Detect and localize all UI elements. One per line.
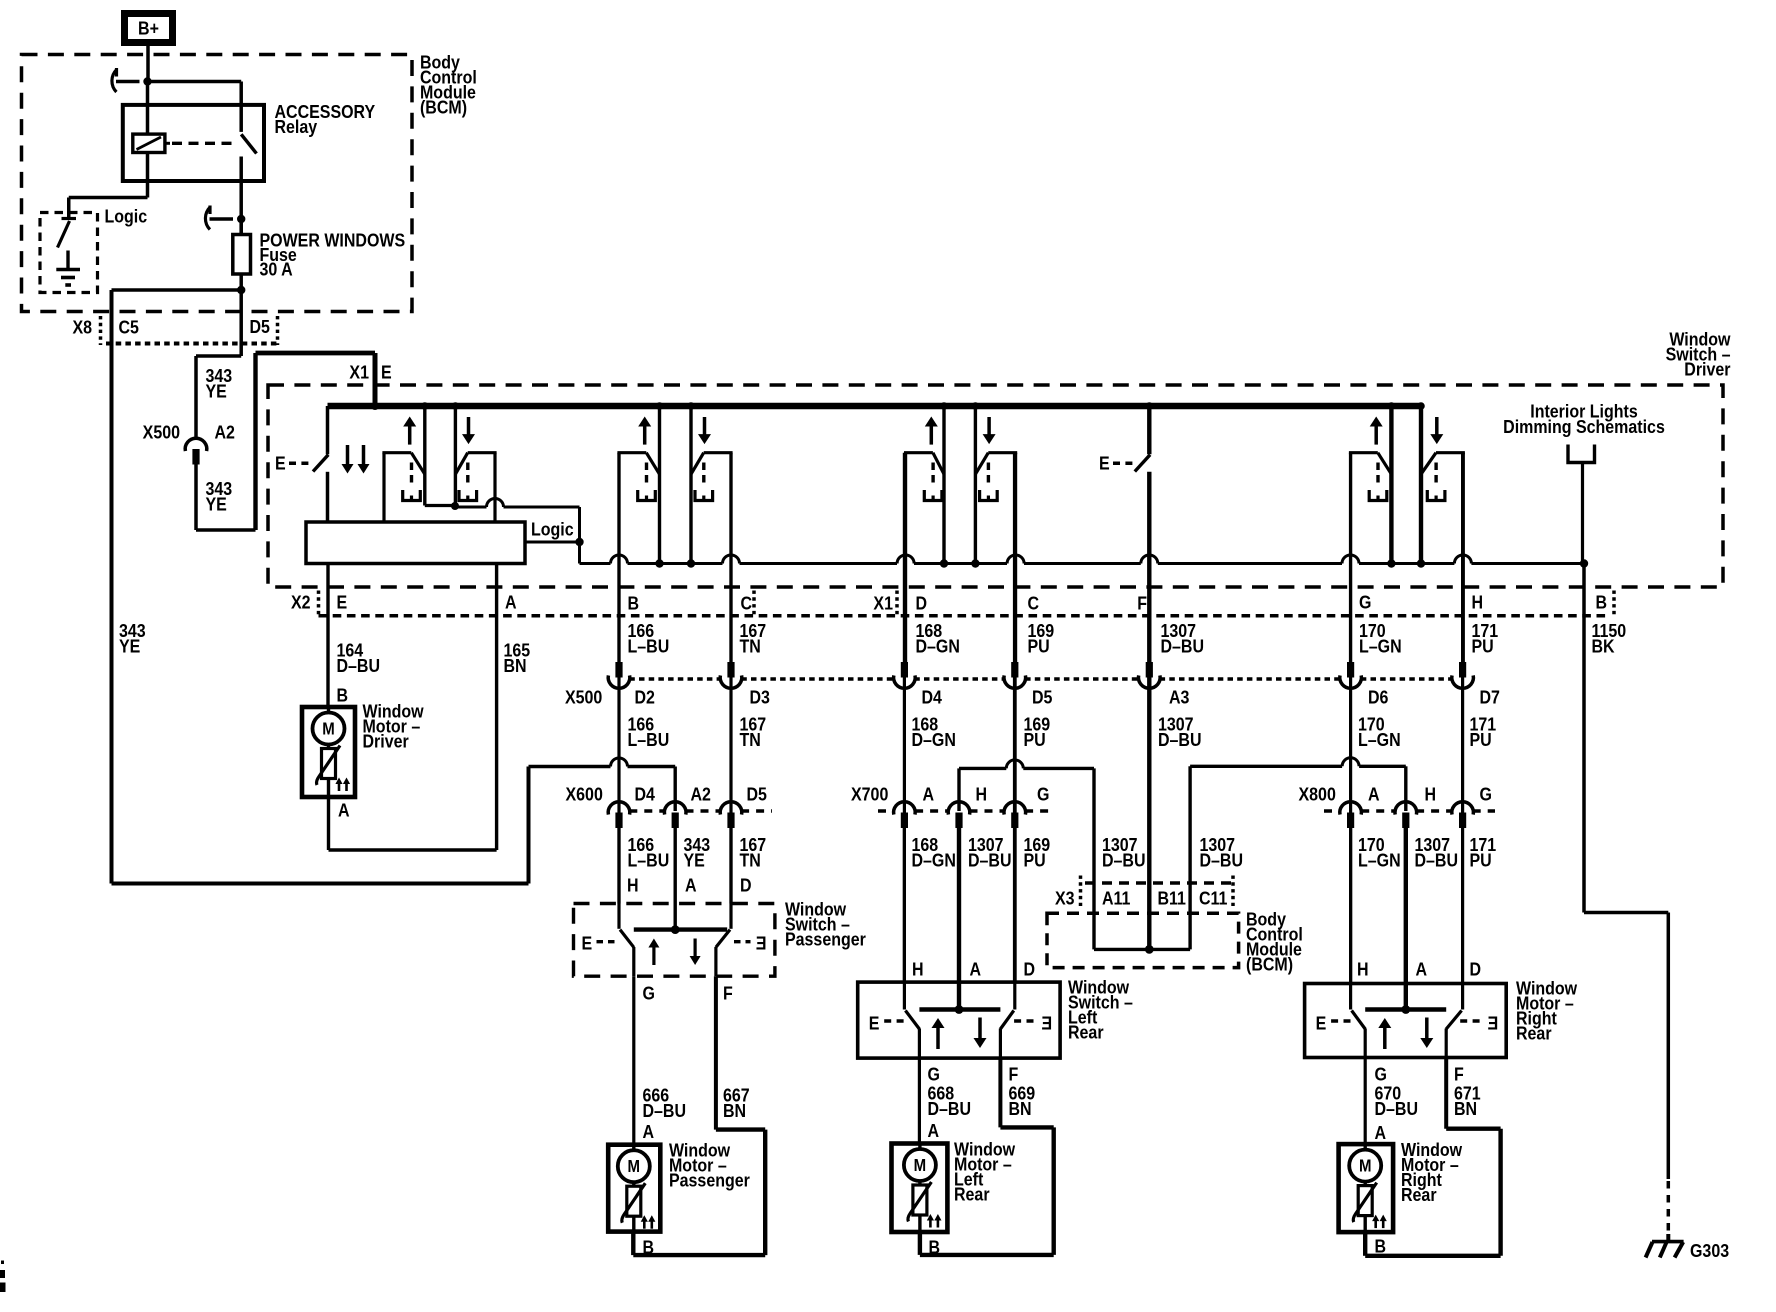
svg-text:BN: BN	[1454, 1098, 1477, 1119]
svg-text:D5: D5	[1032, 686, 1053, 707]
Body Control Module bottom dashed box	[1047, 913, 1239, 967]
svg-text:E: E	[869, 1012, 880, 1033]
svg-text:A11: A11	[1102, 887, 1131, 908]
wire 166 L-BU	[617, 453, 620, 904]
svg-text:M: M	[1359, 1157, 1371, 1176]
svg-text:Rear: Rear	[1401, 1184, 1437, 1205]
ground G303	[1666, 1234, 1670, 1242]
svg-text:D–BU: D–BU	[1375, 1098, 1419, 1119]
switch pair passenger window	[617, 453, 620, 663]
svg-text:PU: PU	[1472, 635, 1494, 656]
node fuse top junction	[237, 215, 245, 223]
svg-text:D–BU: D–BU	[1158, 729, 1202, 750]
wire X800 outputs to right rear switch	[1349, 827, 1352, 984]
svg-text:E: E	[756, 932, 767, 953]
node fuse output junction	[237, 286, 245, 294]
svg-text:G: G	[643, 982, 655, 1003]
svg-text:E: E	[1041, 1012, 1052, 1033]
relay K - ACCESSORY Relay box	[123, 105, 264, 181]
svg-text:D–BU: D–BU	[1102, 849, 1146, 870]
svg-text:F: F	[1137, 592, 1147, 613]
svg-text:Dimming Schematics: Dimming Schematics	[1503, 416, 1665, 437]
svg-text:TN: TN	[740, 635, 761, 656]
svg-text:A: A	[685, 874, 697, 895]
svg-text:X500: X500	[565, 686, 602, 707]
svg-text:A: A	[1375, 1122, 1387, 1143]
svg-text:D6: D6	[1368, 686, 1388, 707]
wire relay output	[239, 157, 243, 235]
page edge marks	[0, 1270, 5, 1278]
wire 343 YE bottom run to X600 A2	[112, 882, 529, 886]
svg-text:A2: A2	[691, 783, 711, 804]
wire 1150 BK from interior lights	[1581, 463, 1584, 564]
svg-text:B: B	[337, 684, 349, 705]
svg-text:B: B	[929, 1236, 941, 1257]
Window Switch Right Rear box	[1305, 984, 1507, 1058]
terminal pin at fuse	[210, 217, 234, 221]
connector row X800	[1324, 809, 1340, 813]
svg-text:D4: D4	[922, 686, 943, 707]
svg-text:X2: X2	[291, 591, 311, 612]
svg-text:L–BU: L–BU	[628, 635, 670, 656]
relay coil wire	[146, 82, 150, 135]
svg-text:E: E	[1488, 1012, 1499, 1033]
svg-text:30 A: 30 A	[260, 259, 294, 280]
svg-text:Rear: Rear	[1516, 1022, 1552, 1043]
Window Switch Driver dashed box	[268, 385, 1723, 587]
svg-text:A: A	[923, 783, 935, 804]
wire coil to logic ground	[146, 153, 150, 198]
svg-text:A3: A3	[1169, 686, 1189, 707]
svg-text:Logic: Logic	[531, 518, 574, 539]
svg-text:D–BU: D–BU	[968, 849, 1012, 870]
svg-text:Rear: Rear	[954, 1183, 990, 1204]
svg-text:L–BU: L–BU	[628, 849, 670, 870]
wire 169 PU	[1013, 453, 1017, 982]
switch blade in logic box	[62, 217, 77, 220]
Window Switch Left Rear box	[858, 982, 1060, 1058]
wire 171 PU	[1461, 453, 1464, 984]
wire 666 D-BU	[632, 976, 635, 1144]
svg-text:B: B	[628, 592, 640, 613]
wire 671 BN to motor B	[1444, 1058, 1448, 1129]
svg-text:(BCM): (BCM)	[420, 96, 467, 117]
svg-text:D5: D5	[747, 783, 768, 804]
interior lights tap bracket	[1568, 445, 1595, 463]
svg-text:L–GN: L–GN	[1358, 729, 1401, 750]
svg-text:E: E	[582, 932, 593, 953]
svg-text:D–BU: D–BU	[1200, 849, 1244, 870]
svg-text:BN: BN	[504, 655, 527, 676]
wire junction to relay contact	[148, 80, 242, 84]
svg-text:Driver: Driver	[363, 730, 409, 751]
svg-text:D–BU: D–BU	[1161, 635, 1205, 656]
svg-text:B: B	[1596, 591, 1608, 612]
wire 164 D-BU driver up	[326, 564, 329, 708]
svg-text:D–BU: D–BU	[337, 655, 381, 676]
switch pair driver window	[382, 453, 385, 522]
svg-text:BK: BK	[1592, 635, 1616, 656]
svg-text:D–GN: D–GN	[916, 635, 960, 656]
battery feed B+	[125, 14, 173, 43]
fuse F - POWER WINDOWS Fuse 30A	[239, 219, 243, 235]
svg-text:E: E	[1099, 452, 1110, 473]
svg-text:X8: X8	[73, 316, 93, 337]
svg-text:G: G	[1037, 783, 1049, 804]
svg-text:D: D	[916, 592, 928, 613]
svg-text:E: E	[337, 591, 348, 612]
svg-text:YE: YE	[119, 635, 140, 656]
switch passenger internals	[617, 904, 620, 929]
svg-text:Logic: Logic	[105, 205, 148, 226]
relay switch blade	[241, 134, 256, 153]
svg-text:A: A	[338, 799, 350, 820]
svg-text:H: H	[627, 874, 639, 895]
svg-text:A2: A2	[215, 421, 235, 442]
svg-text:M: M	[322, 720, 334, 739]
svg-text:M: M	[914, 1156, 926, 1175]
wire 669 BN to motor B	[998, 1058, 1002, 1127]
svg-text:A: A	[1368, 783, 1380, 804]
motor M window motor right rear	[1339, 1144, 1394, 1232]
svg-text:D3: D3	[750, 686, 770, 707]
svg-text:C11: C11	[1199, 887, 1228, 908]
svg-text:Relay: Relay	[275, 116, 318, 137]
svg-text:D–BU: D–BU	[1415, 849, 1459, 870]
svg-text:X1: X1	[873, 592, 893, 613]
wire 167 TN	[729, 453, 732, 904]
svg-text:H: H	[1357, 958, 1369, 979]
wire X600 outputs to passenger switch	[617, 827, 620, 904]
svg-text:B: B	[643, 1236, 655, 1257]
svg-text:D4: D4	[635, 783, 656, 804]
svg-text:F: F	[723, 982, 733, 1003]
connector row X3 BCM	[1085, 881, 1232, 885]
wires inside BCM joined	[1092, 913, 1095, 949]
svg-text:B+: B+	[138, 17, 159, 38]
switch pair left rear window	[904, 453, 907, 663]
wire 343 YE jog to X500 A2	[196, 354, 241, 358]
double down arrows express	[346, 445, 350, 465]
svg-text:L–GN: L–GN	[1359, 635, 1402, 656]
terminal pin into relay feed	[116, 80, 140, 84]
svg-text:PU: PU	[1470, 849, 1492, 870]
svg-text:X700: X700	[851, 783, 888, 804]
wire 1307 D-BU link to X700 H	[957, 768, 960, 811]
svg-text:D: D	[740, 874, 752, 895]
Body Control Module (BCM) dashed box	[22, 55, 413, 312]
svg-text:D5: D5	[249, 316, 270, 337]
wire X700 outputs to left rear switch	[903, 827, 906, 982]
node relay feed junction	[143, 77, 151, 85]
svg-text:C5: C5	[118, 316, 139, 337]
svg-text:B: B	[1375, 1235, 1387, 1256]
Logic dashed box (BCM driver)	[40, 213, 98, 293]
wire 1307 D-BU main	[1147, 663, 1151, 883]
connector X500 pin A2 inline	[185, 438, 207, 451]
svg-text:BN: BN	[723, 1100, 746, 1121]
wire D5 down	[239, 290, 243, 356]
svg-text:PU: PU	[1028, 635, 1050, 656]
svg-text:C: C	[1028, 592, 1040, 613]
svg-text:D: D	[1024, 958, 1036, 979]
svg-text:E: E	[1316, 1012, 1327, 1033]
svg-text:PU: PU	[1024, 729, 1046, 750]
svg-text:BN: BN	[1009, 1098, 1032, 1119]
wire 343 YE up to X1 E	[196, 528, 256, 532]
connector row X500	[629, 677, 720, 681]
svg-text:A: A	[1416, 958, 1428, 979]
Window Switch Passenger dashed box	[574, 904, 775, 977]
svg-text:A: A	[505, 591, 517, 612]
svg-text:D2: D2	[635, 686, 655, 707]
svg-text:D7: D7	[1480, 686, 1500, 707]
wire logic out	[525, 541, 580, 544]
wire 670 D-BU	[1364, 1058, 1367, 1145]
logic box driver switch	[306, 522, 525, 564]
wire B+ down	[146, 46, 150, 82]
svg-text:A: A	[643, 1121, 655, 1142]
svg-text:PU: PU	[1470, 729, 1492, 750]
motor M window motor left rear	[892, 1144, 948, 1233]
svg-text:D: D	[1470, 958, 1482, 979]
svg-text:Passenger: Passenger	[669, 1169, 750, 1190]
svg-text:Rear: Rear	[1068, 1021, 1104, 1042]
svg-text:(BCM): (BCM)	[1246, 953, 1293, 974]
svg-text:X1: X1	[349, 361, 369, 382]
svg-text:A: A	[970, 958, 982, 979]
svg-text:D–GN: D–GN	[912, 729, 956, 750]
svg-text:H: H	[975, 783, 987, 804]
wire 165 BN driver down	[495, 564, 498, 851]
svg-text:X500: X500	[143, 421, 180, 442]
svg-text:YE: YE	[206, 493, 227, 514]
wire 170 L-GN	[1349, 453, 1352, 984]
svg-text:G303: G303	[1690, 1240, 1729, 1261]
wire X1 pin E feed entering driver switch	[373, 353, 378, 406]
svg-text:G: G	[1359, 591, 1371, 612]
bus feed in driver switch	[328, 403, 1422, 410]
svg-text:L–GN: L–GN	[1358, 849, 1401, 870]
wire B11 through row	[1147, 883, 1151, 913]
ground in logic box	[66, 251, 69, 270]
wire 343 YE long left drop	[110, 290, 114, 884]
svg-text:A: A	[928, 1120, 940, 1141]
svg-text:YE: YE	[206, 380, 227, 401]
svg-text:M: M	[628, 1157, 640, 1176]
svg-text:H: H	[1425, 783, 1437, 804]
svg-text:G: G	[1480, 783, 1492, 804]
svg-text:E: E	[381, 361, 392, 382]
node logic junction	[575, 538, 583, 546]
connector row X600	[629, 809, 665, 813]
motor M window motor driver	[302, 707, 355, 797]
svg-text:X3: X3	[1055, 887, 1075, 908]
wire 1150 BK to ground	[1584, 911, 1668, 915]
svg-text:PU: PU	[1024, 849, 1046, 870]
svg-text:E: E	[275, 452, 286, 473]
wire 1307 D-BU link to X800 H	[1188, 766, 1191, 883]
svg-text:X800: X800	[1299, 783, 1336, 804]
wire 1307 D-BU to BCM A11	[1092, 768, 1095, 913]
svg-text:L–BU: L–BU	[628, 729, 670, 750]
switch pair right rear window	[1349, 453, 1352, 663]
wire 668 D-BU	[918, 1058, 921, 1143]
connector row X700	[878, 809, 894, 813]
svg-text:D–BU: D–BU	[643, 1100, 687, 1121]
wire 168 D-GN	[903, 453, 906, 982]
svg-text:TN: TN	[740, 729, 761, 750]
switch E rear lockout	[1147, 406, 1151, 454]
wire to C5	[112, 288, 242, 292]
svg-text:D–GN: D–GN	[912, 849, 956, 870]
logic line across switch	[580, 562, 611, 565]
wire driver pair common	[425, 504, 456, 507]
svg-text:H: H	[912, 958, 924, 979]
svg-text:Passenger: Passenger	[785, 928, 866, 949]
wire 667 BN to motor B	[714, 976, 718, 1129]
svg-text:D–BU: D–BU	[928, 1098, 972, 1119]
relay coil-contact dashed link	[172, 142, 236, 145]
svg-text:YE: YE	[684, 849, 705, 870]
svg-text:TN: TN	[740, 849, 761, 870]
relay coil	[133, 134, 165, 152]
svg-text:X600: X600	[566, 783, 603, 804]
switch E driver lockout	[326, 406, 330, 454]
motor M window motor passenger	[608, 1145, 660, 1232]
svg-text:B11: B11	[1158, 887, 1187, 908]
svg-text:Driver: Driver	[1684, 358, 1730, 379]
svg-text:H: H	[1472, 591, 1484, 612]
svg-text:C: C	[741, 592, 753, 613]
